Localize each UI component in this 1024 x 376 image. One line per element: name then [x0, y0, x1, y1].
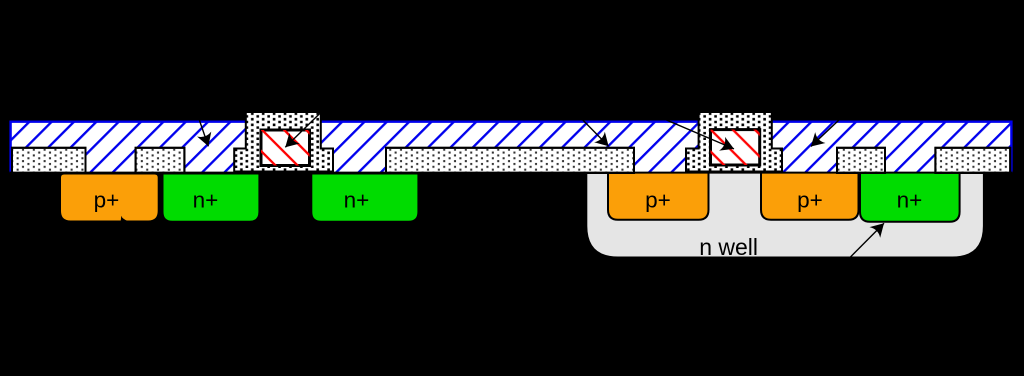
silicon surface line (band bottom)	[10, 172, 1013, 174]
polysilicon gate left (NMOS, top-hat shape)	[234, 112, 333, 172]
p+ region left (substrate contact)	[60, 174, 159, 223]
arrow 3 (points to field oxide S3)	[571, 108, 609, 146]
svg-text:n+: n+	[193, 187, 219, 212]
field oxide S3 (long middle)	[386, 148, 634, 173]
n+ drain region (left NMOS)	[311, 174, 418, 222]
svg-text:p+: p+	[797, 187, 823, 212]
field oxide S4	[837, 148, 885, 173]
arrow 6 (points to n+ well contact)	[841, 223, 884, 266]
svg-text:p+: p+	[645, 187, 671, 212]
polysilicon gate right (PMOS, top-hat shape)	[686, 112, 782, 172]
arrow 4 (points into right gate oxide)	[645, 111, 734, 149]
notch artifact at p+ bottom right	[121, 216, 137, 223]
p+ source region (right PMOS)	[608, 173, 709, 220]
svg-text:n+: n+	[344, 187, 370, 212]
field oxide S2	[136, 148, 185, 173]
gate oxide left (red hatch box)	[261, 130, 310, 166]
n well (grey tub, right side)	[586, 172, 984, 258]
svg-text:p+: p+	[94, 187, 120, 212]
n+ source region (left NMOS)	[163, 174, 260, 222]
arrow 1 (points to thin oxide over substrate)	[195, 106, 209, 146]
arrow 2 (points into left gate oxide)	[285, 108, 325, 147]
field oxide S1 (far left)	[12, 148, 86, 173]
field oxide S5 (far right)	[935, 148, 1010, 173]
gate oxide right (red hatch box)	[711, 130, 760, 165]
svg-text:n well: n well	[699, 234, 758, 260]
p+ drain region (right PMOS)	[761, 173, 859, 220]
svg-text:n+: n+	[897, 187, 923, 212]
arrow 5 (points to thin oxide over n well)	[811, 110, 850, 147]
oxide/passivation band (white with blue hatch)	[10, 121, 1013, 174]
n+ well-contact region (right)	[860, 173, 960, 222]
